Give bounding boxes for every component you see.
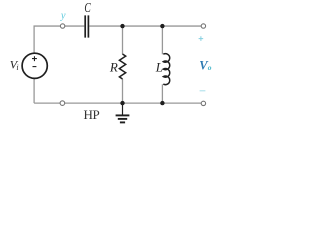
resistor R (119, 54, 125, 79)
inductor L (163, 54, 169, 85)
wire L branch bottom lead (161, 84, 163, 103)
svg-text:L: L (155, 59, 163, 74)
wire top-left: source top to capacitor left plate (34, 26, 84, 53)
label - polarity (200, 90, 206, 92)
wire L branch top lead (161, 26, 163, 54)
svg-text:HP: HP (84, 107, 100, 122)
junction dot top R (120, 24, 124, 28)
label + polarity (199, 36, 204, 41)
junction dot bottom L (160, 101, 164, 105)
ground (116, 103, 130, 122)
svg-text:C: C (84, 0, 91, 15)
svg-text:R: R (109, 59, 118, 74)
node y terminal (top open circle) (60, 24, 64, 28)
capacitor C (85, 15, 88, 37)
svg-text:y: y (60, 10, 66, 21)
junction dot top L (160, 24, 164, 28)
wire source bottom to bottom-left corner (33, 79, 35, 103)
output terminal + (top right open circle) (201, 24, 205, 28)
wire top-right: capacitor right plate to output terminal (89, 25, 201, 27)
wire R branch top lead (122, 26, 124, 54)
wire R branch bottom lead (122, 79, 124, 103)
svg-text:i: i (16, 63, 18, 72)
junction dot bottom R (120, 101, 124, 105)
svg-text:o: o (208, 63, 212, 72)
bottom-left open terminal (60, 101, 65, 106)
wire bottom rail (34, 102, 201, 104)
voltage source Vi (22, 53, 47, 78)
output terminal - (bottom right open circle) (201, 101, 205, 105)
